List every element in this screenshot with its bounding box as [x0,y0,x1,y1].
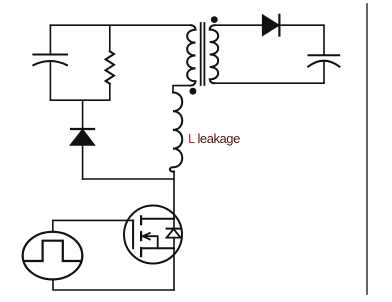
diode D-out (pointing right) [263,15,280,36]
capacitor C-out [308,55,339,83]
polarity dot primary bottom [190,88,197,95]
transformer T1 primary winding [187,25,195,85]
wire: top rail from snubber loop to transformer primary top [50,24,191,26]
MOSFET M1 substrate arrow (points left) [143,233,158,248]
polarity dot secondary top [211,16,218,23]
wire: bottom of RC snubber loop [50,99,109,101]
pulse source square-wave symbol [24,241,82,261]
wire: from snubber diode anode to drain node [83,178,174,180]
resistor R-snubber (right branch) [106,25,114,100]
MOSFET M1 gate bar [132,220,134,248]
MOSFET M1 source bar [141,247,174,249]
wire: secondary bottom rail [214,82,324,84]
wire: source bottom lead and bottom rail [53,279,174,290]
wire: drain node vertical (leakage bottom to MOSFET, through body diode, to source bottom) [173,172,175,291]
MOSFET M1 circle [124,206,182,264]
diode D-snubber (pointing up) [71,100,95,179]
MOSFET M1 body diode (pointing up) [167,229,181,238]
wire: secondary top lead to output diode [214,24,262,26]
pulse source V1 ellipse [23,232,83,280]
wire: primary bottom lead to leakage inductor [173,86,191,93]
transformer core [201,23,205,85]
wire: source top lead to MOSFET gate [53,220,133,232]
wire: output diode cathode to output cap top [279,25,324,55]
MOSFET M1 drain bar [141,218,174,220]
transformer T1 secondary winding [210,25,218,83]
inductor L-leakage [170,93,182,172]
svg-text:L leakage: L leakage [188,131,240,146]
MOSFET M1 channel segments [140,216,142,256]
vertical border line far right [366,4,368,294]
capacitor C-snubber (left branch) [33,25,67,100]
